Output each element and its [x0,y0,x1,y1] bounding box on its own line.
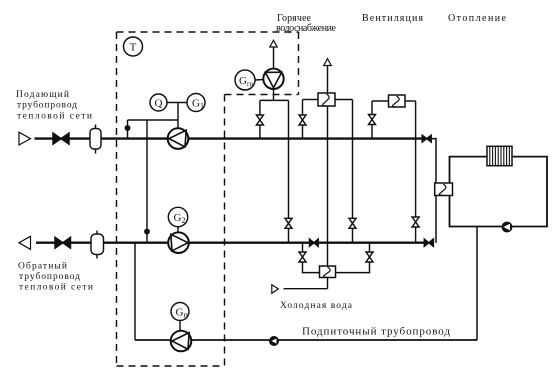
wire G1 drop to pump [177,103,179,129]
node T circle [124,37,143,56]
wire manifold right branch [288,100,290,242]
air vent triangle hot water [270,40,277,47]
svg-text:Подпиточный трубопровод: Подпиточный трубопровод [302,326,450,338]
valve supply inline right [422,135,431,142]
wire Ggv stem [255,79,263,82]
return outlet triangle [19,236,31,249]
circle Ggv [235,70,255,90]
wire HX2 right branch [415,101,417,243]
svg-text:водоснабжение: водоснабжение [276,23,337,34]
circle Q [150,94,167,111]
wire return pipe [36,241,425,243]
wire HX4 left branch [303,243,320,273]
radiator [487,146,512,165]
valve manifold left [256,115,263,125]
svg-text:Подающий: Подающий [16,89,69,100]
elevator HX3 [435,183,453,196]
valve return inline left [310,239,319,246]
wire HX1 right link [335,99,353,101]
pump G1 [168,128,189,149]
wire vent stem [273,47,275,69]
pump heating loop [502,222,513,233]
wire manifold left branch [259,100,261,138]
valve HX4 left [299,252,306,262]
svg-text:тепловой сети: тепловой сети [17,111,92,122]
circle Gp [171,303,189,321]
valve return inline right [424,239,433,246]
heat exchanger HX4 (DHW stage 1) [320,266,336,278]
wire HX1 right branch [352,100,354,243]
heat exchanger HX1 (DHW stage 2) [318,93,335,106]
wire G2 stem [177,227,179,233]
wire makeup riser from return [134,243,136,340]
wire impulse line horizontal [128,119,179,121]
filter (mud trap) return [96,231,98,235]
svg-text:Q: Q [155,98,163,110]
wire loop drop to makeup [476,227,478,341]
valve return inlet [55,237,71,248]
pump hot water [263,69,283,89]
wire makeup pipe [135,339,477,341]
valve manifold right branch [285,218,292,228]
valve HX1 left [299,115,306,125]
valve HX2 right branch [412,217,419,227]
valve supply inlet [53,133,69,144]
svg-text:тепловой сети: тепловой сети [19,282,93,293]
wire HX2 left branch [371,101,373,139]
wire HX2 right link [405,100,416,102]
wire return sensor line [146,120,148,243]
svg-text:трубопровод: трубопровод [17,100,77,111]
wire HX4 right branch [336,243,370,273]
text labels [276,13,507,34]
pump Gp [171,331,192,352]
valve HX1 right branch [349,218,356,228]
wire HX1 left link [303,99,319,101]
check valve makeup [270,337,279,346]
wire cold water line [284,288,328,290]
wire Gp stem [179,321,181,331]
circle G1 [187,94,205,112]
heat exchanger HX2 (ventilation) [389,95,406,107]
node return sensor dot [145,229,149,233]
wire HX1 left branch [302,100,304,139]
wire supply pipe [35,137,423,139]
valve HX2 left [369,115,376,125]
svg-text:Холодная вода: Холодная вода [280,301,353,311]
wire Q-G1 link [167,102,187,104]
wire supply elbow to elevator [431,139,436,243]
supply inlet triangle [19,132,31,145]
node supply sensor dot [125,126,129,130]
pump G2 [168,232,189,253]
svg-text:Обратный: Обратный [18,261,67,272]
wire heating loop [450,157,548,227]
svg-text:трубопровод: трубопровод [19,271,80,282]
dashed boundary box (heat point) [117,32,299,366]
wire supply sensor stem [127,120,129,139]
svg-text:Отопление: Отопление [448,13,507,24]
wire DHW riser [327,66,329,289]
filter (mud trap) supply [95,125,97,130]
wire pump to manifold [273,89,275,100]
air vent triangle DHW riser [324,59,332,66]
cold water inlet triangle [272,285,279,293]
circle G2 [168,207,187,226]
valve HX4 right [366,252,373,262]
wire manifold [260,99,289,101]
wire HX2 left link [372,100,389,102]
svg-text:Т: Т [130,42,137,54]
